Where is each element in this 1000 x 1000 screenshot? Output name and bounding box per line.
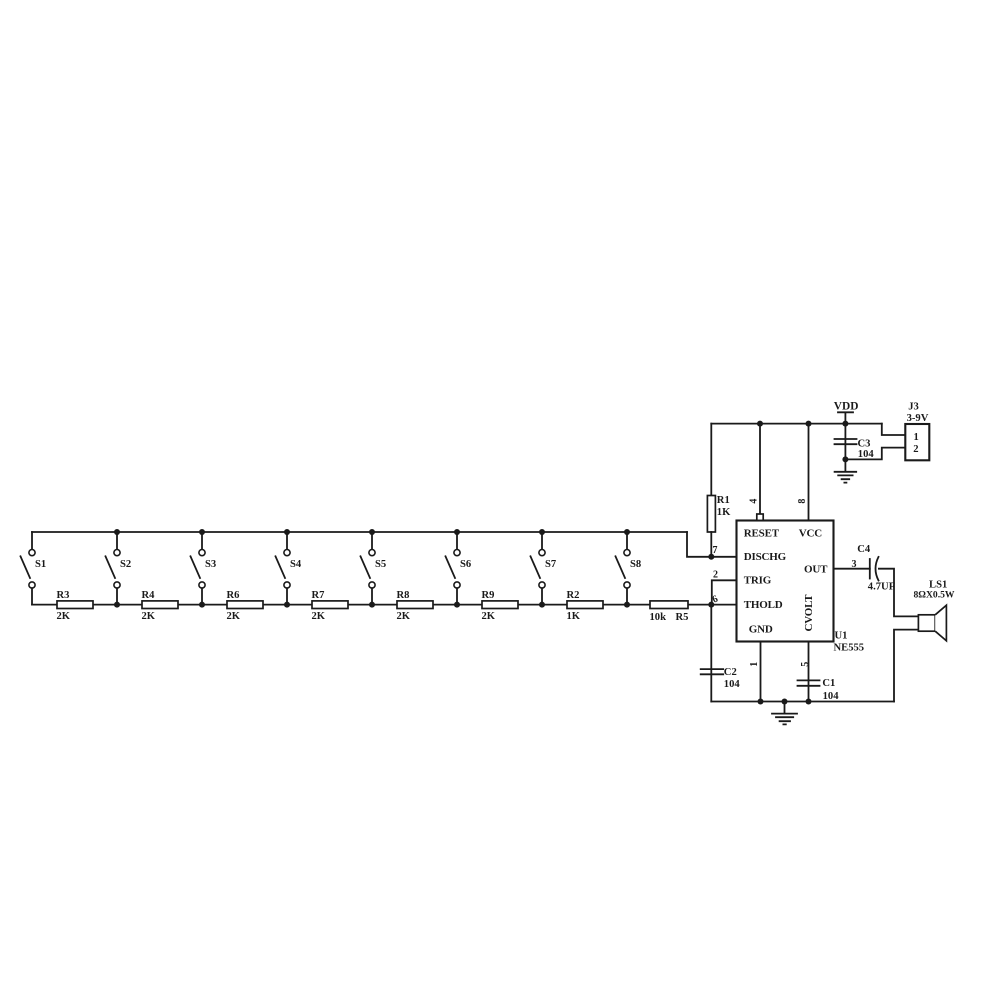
speaker LS1 8ohm 0.5W [914,579,955,641]
capacitor C1 104 [798,678,840,702]
wire TRIG link pin 2 [712,580,737,604]
node junction top rail at S7 [539,529,545,535]
svg-text:7: 7 [713,545,718,556]
node junction bottom chain at S6 [454,602,460,608]
power VDD symbol [834,401,859,424]
node junction bottom chain at S2 [114,602,120,608]
svg-text:NE555: NE555 [834,643,865,654]
wire pin 4 RESET from VDD rail [759,424,761,514]
node junction top rail at S2 [114,529,120,535]
node junction top rail at S4 [284,529,290,535]
resistor R9 2K [482,590,519,622]
pin name DISCHG [744,551,787,563]
node junction VDD rail at pin 4 [757,421,763,427]
svg-text:OUT: OUT [804,564,828,576]
designator U1 NE555 [834,631,865,654]
svg-text:S7: S7 [545,559,557,570]
svg-text:THOLD: THOLD [744,599,783,611]
svg-text:R5: R5 [676,612,689,623]
svg-text:C4: C4 [857,544,871,555]
ground below C3 [835,459,857,482]
resistor R3 2K [57,590,94,622]
pin name VCC [799,527,822,539]
svg-text:1: 1 [914,432,919,443]
wire bottom resistor chain to THOLD [32,604,737,606]
node junction C3 bottom [842,456,848,462]
pin name TRIG [744,575,772,587]
node junction VDD rail at C3 [842,421,848,427]
pin name CVOLT (rotated) [803,594,815,632]
svg-text:VDD: VDD [834,401,859,413]
wire pin 8 VCC from VDD rail [808,424,810,521]
pin name GND [749,624,773,636]
pin 4 open square [757,514,763,520]
switch S3 [191,532,217,605]
node junction ground rail at C1 [806,699,812,705]
svg-text:1K: 1K [567,611,581,622]
svg-text:R6: R6 [227,590,240,601]
svg-text:S2: S2 [120,559,131,570]
resistor R1 1K [707,495,731,532]
svg-text:C2: C2 [724,667,737,678]
svg-text:5: 5 [800,662,811,667]
svg-text:104: 104 [823,691,840,702]
node junction bottom chain at S3 [199,602,205,608]
svg-text:DISCHG: DISCHG [744,551,787,563]
svg-text:3: 3 [852,559,857,570]
node junction pin 7 (R1 / DISCHG) [708,554,714,560]
svg-text:1: 1 [749,662,760,667]
pin number 7 [713,545,718,556]
wire rail step to pin 7 DISCHG [687,532,737,557]
svg-text:RESET: RESET [744,527,780,539]
wire pin 1 GND to ground rail [760,642,762,702]
pin number 2 [713,570,718,581]
resistor R5 10k [650,601,689,623]
svg-text:3-9V: 3-9V [907,413,929,424]
svg-text:2K: 2K [397,611,411,622]
node junction bottom chain at S7 [539,602,545,608]
node junction top rail at S3 [199,529,205,535]
ground below rail [772,702,797,725]
resistor R7 2K [312,590,349,622]
svg-text:S8: S8 [630,559,641,570]
pin number 1 (rotated) [749,662,760,667]
svg-text:GND: GND [749,624,773,636]
svg-text:R9: R9 [482,590,495,601]
node junction bottom chain at S8 [624,602,630,608]
svg-text:104: 104 [858,449,875,460]
svg-text:R4: R4 [142,590,156,601]
switch S7 [531,532,557,605]
pin name THOLD [744,599,783,611]
node junction top rail at S8 [624,529,630,535]
svg-text:2K: 2K [482,611,496,622]
svg-text:2K: 2K [227,611,241,622]
switch S6 [446,532,472,605]
svg-text:C1: C1 [822,678,835,689]
pin name OUT [804,564,828,576]
node junction bottom chain at S4 [284,602,290,608]
resistor R4 2K [142,590,179,622]
pin number 3 [852,559,857,570]
svg-text:S1: S1 [35,559,46,570]
svg-text:2: 2 [713,570,718,581]
svg-text:R8: R8 [397,590,410,601]
svg-text:1K: 1K [717,507,731,518]
resistor R8 2K [397,590,434,622]
node junction top rail at S5 [369,529,375,535]
node junction pin 6 (THOLD / C2) [708,602,714,608]
svg-text:8ΩX0.5W: 8ΩX0.5W [914,590,955,601]
svg-text:2K: 2K [312,611,326,622]
wire pin 6 node to ground rail (through C2) [710,605,712,702]
svg-text:S3: S3 [205,559,216,570]
svg-text:VCC: VCC [799,527,822,539]
pin name RESET [744,527,780,539]
wire OUT pin 3 [834,568,870,570]
wire J3 pin 1 to VDD rail [882,424,906,435]
svg-text:R2: R2 [567,590,580,601]
wire VDD rail to R1 [710,424,712,496]
svg-text:10k: 10k [650,612,667,623]
switch S5 [361,532,387,605]
svg-text:U1: U1 [835,631,848,642]
pin number 8 (rotated) [797,499,808,504]
svg-text:4.7UF: 4.7UF [868,582,895,593]
wire speaker bottom terminal to ground rail [894,630,918,702]
svg-text:R7: R7 [312,590,326,601]
pin number 6 [711,594,720,606]
svg-text:104: 104 [724,679,741,690]
switch S1 [21,532,47,605]
node junction VDD rail at pin 8 [806,421,812,427]
capacitor C4 4.7UF [857,544,895,593]
wire C4 to speaker top terminal [879,569,919,617]
svg-text:R1: R1 [717,495,730,506]
connector J3 3-9V [905,401,929,460]
wire VDD top rail [711,423,882,425]
svg-text:S6: S6 [460,559,471,570]
svg-text:8: 8 [797,499,808,504]
node junction ground rail at GND pin [758,699,764,705]
switch S8 [616,532,642,605]
switch S4 [276,532,302,605]
op-amp/timer U1 NE555 body [737,521,834,642]
capacitor C2 104 [701,667,741,690]
svg-text:CVOLT: CVOLT [803,594,815,632]
wire bottom ground rail [711,701,894,703]
pin number 5 (rotated) [800,662,811,667]
capacitor C3 104 [835,424,875,460]
switch S2 [106,532,132,605]
svg-text:2K: 2K [57,611,71,622]
svg-text:S4: S4 [290,559,302,570]
wire top switch rail [32,531,687,533]
svg-text:R3: R3 [57,590,70,601]
svg-text:J3: J3 [908,401,919,412]
svg-text:S5: S5 [375,559,386,570]
resistor R2 1K [567,590,604,622]
pin number 4 (rotated) [749,499,760,504]
wire pin 5 CVOLT to C1 [808,642,810,702]
wire J3 pin 2 to C3 bottom [845,448,905,460]
svg-text:2: 2 [913,444,918,455]
svg-text:C3: C3 [858,439,871,450]
svg-text:4: 4 [749,499,760,504]
wire R1 to pin 7 node [710,532,712,557]
node junction top rail at S6 [454,529,460,535]
svg-text:TRIG: TRIG [744,575,772,587]
svg-text:2K: 2K [142,611,156,622]
node junction ground rail at ground symbol [782,699,788,705]
resistor R6 2K [227,590,264,622]
node junction bottom chain at S5 [369,602,375,608]
